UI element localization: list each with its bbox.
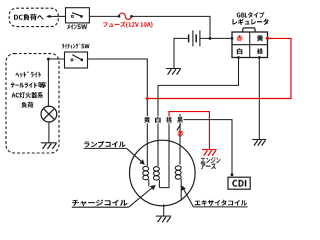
- label: GBLタイプ: [237, 12, 264, 18]
- label: CDI: [232, 180, 246, 187]
- arrow: to charge coil: [129, 188, 153, 208]
- wire: battery negative lead: [174, 38, 189, 68]
- regulator mounting tab: [243, 28, 255, 32]
- ground: magneto: [156, 215, 171, 217]
- wire: lamp to ground: [48, 122, 50, 143]
- charge coil: [153, 167, 159, 171]
- wire: regulator 緑 to ground: [258, 58, 260, 140]
- regulator terminal labels 赤/黄/白/緑: [237, 35, 242, 41]
- label: アース: [201, 163, 216, 169]
- label: ランプコイル (underlined): [84, 141, 126, 148]
- red wire: pink wire to engine earth: [169, 112, 209, 150]
- lamp coil: [143, 166, 149, 170]
- regulator terminal dots: [231, 37, 234, 40]
- ground: engine earth (red): [202, 149, 217, 151]
- wire: lighting switch to magneto yellow wire: [88, 59, 148, 166]
- label: DC負荷へ: [14, 14, 43, 21]
- wire: battery positive to node: [200, 37, 232, 39]
- junction node: battery/fuse/regulator: [209, 37, 212, 40]
- label: フューズ(12V 10A): [103, 22, 153, 28]
- junction: red wire joins yellow wire: [146, 97, 149, 100]
- wire: junction to lighting switch: [48, 58, 64, 60]
- label: レギュレータ: [233, 19, 269, 25]
- wire color labels 黄 白 桃 黒/赤: [144, 116, 151, 123]
- junction at CDI input: [231, 173, 234, 176]
- arrow: to exciter coil: [184, 189, 194, 207]
- wire: charge coil end to pink wire: [159, 116, 169, 187]
- lighting switch contacts and blade: [71, 59, 73, 61]
- junction node: lamp feed: [47, 58, 50, 61]
- ground: lamp: [41, 142, 57, 144]
- label: AC灯火器系: [12, 92, 43, 98]
- label: 負荷: [22, 102, 34, 108]
- lighting switch (ライティングSW) box: [65, 52, 88, 68]
- label: ライティングSW: [62, 44, 90, 49]
- exciter coil: [179, 114, 181, 165]
- label: テールライト等: [11, 82, 47, 88]
- wire: main switch to DC load, arrow: [50, 15, 66, 17]
- lamp symbol (AC load): [41, 106, 57, 122]
- red wire: regulator 黄 to magneto yellow wire: [147, 38, 291, 98]
- AC lighting loads box (dashed): [6, 54, 59, 153]
- battery B (plates): [188, 34, 190, 42]
- wire: junction down to lamp: [47, 59, 49, 106]
- magneto flywheel (circle): [130, 140, 196, 206]
- CDI unit box: [228, 177, 250, 189]
- main switch (メインSW) box: [66, 8, 90, 23]
- label: メインSW: [67, 24, 87, 29]
- label: / (black over red): [177, 124, 181, 130]
- label: ヘッドライト: [16, 72, 42, 78]
- regulator (GBLタイプ) box: [232, 32, 268, 58]
- wire: regulator 白 to magneto white wire: [158, 58, 239, 167]
- label: エキサイタコイル (underlined): [195, 200, 248, 206]
- DC load box (dashed): [9, 8, 58, 26]
- main switch contacts and blade: [71, 15, 73, 17]
- label: チャージコイル (underlined): [72, 200, 128, 207]
- label: 赤 (red wire option): [178, 131, 183, 137]
- fuse F (12V 10A), red S-curve: [119, 13, 132, 19]
- wire: fuse to battery node: [132, 16, 211, 38]
- wire: exciter 黒/赤 to CDI: [184, 120, 233, 175]
- wire: main switch to fuse: [89, 15, 119, 17]
- label: エンジン: [201, 158, 221, 164]
- ground: regulator green: [252, 139, 266, 141]
- wire: magneto frame to ground: [163, 206, 165, 216]
- ground: battery: [166, 68, 181, 70]
- arrow: to lamp coil: [127, 148, 143, 162]
